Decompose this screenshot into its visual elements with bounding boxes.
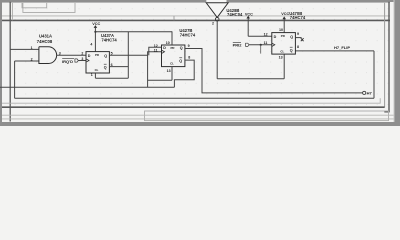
U437A Qbar overline: [104, 63, 107, 65]
wire U427B CLK drop: [148, 52, 162, 87]
window border right: [395, 0, 400, 126]
wire VCC rail to U427B PRE: [95, 31, 172, 33]
svg-text:1: 1: [91, 73, 93, 77]
svg-text:8: 8: [297, 45, 299, 49]
frame inner vertical x12.4: [11, 3, 13, 21]
svg-text:H7_FLIP: H7_FLIP: [334, 45, 350, 50]
title box small top-left: [22, 3, 47, 8]
wire U427B CLR down: [171, 67, 173, 81]
svg-text:VCC: VCC: [92, 22, 100, 26]
U437A clock mark: [86, 59, 89, 62]
svg-text:IRQ'D: IRQ'D: [62, 59, 73, 64]
flip-flop U470B box: [272, 33, 296, 55]
svg-text:74HC74: 74HC74: [101, 37, 117, 42]
svg-text:Q: Q: [290, 35, 293, 39]
wire IRQ'D stub to U437A CLK: [78, 60, 86, 62]
net label PRI2 flag: [246, 43, 249, 46]
wire U427B Q route to H7: [185, 49, 363, 93]
svg-text:74HC04: 74HC04: [227, 12, 243, 17]
svg-text:D: D: [274, 35, 277, 39]
wire inverter output horizontal: [217, 78, 284, 80]
off-page connector H7 circle: [363, 91, 366, 94]
wire U437A Q to U427B D: [109, 47, 161, 55]
svg-text:D: D: [88, 54, 91, 58]
svg-text:CL: CL: [95, 68, 99, 72]
svg-text:12: 12: [264, 33, 268, 37]
VCC symbol 3 (above U470B): [281, 12, 289, 32]
wire U470B CLR up: [283, 54, 285, 79]
sheet frame light second line: [2, 15, 390, 17]
svg-text:PRI2: PRI2: [233, 42, 243, 47]
wire AND pin1 input: [10, 48, 39, 50]
wire feedback left vertical: [14, 61, 16, 98]
window border left: [0, 0, 2, 126]
window border bottom: [0, 122, 400, 126]
svg-text:13: 13: [279, 55, 283, 59]
inverter U428B bubble: [215, 17, 219, 21]
svg-text:9: 9: [188, 44, 190, 48]
AND gate U431A: [39, 47, 57, 64]
svg-text:10: 10: [279, 28, 283, 32]
U470B clock mark: [272, 43, 275, 46]
svg-text:2: 2: [81, 51, 83, 55]
wire AND pin2 input (feedback): [15, 60, 39, 62]
title block box bottom: [145, 111, 389, 121]
VCC symbol 2 (to U470B D): [245, 12, 253, 36]
wire U437A CLR drop: [94, 73, 96, 78]
sheet frame dark bottom border: [2, 106, 385, 108]
svg-text:3: 3: [81, 57, 83, 61]
svg-text:2: 2: [212, 21, 214, 25]
svg-text:8: 8: [188, 55, 190, 59]
sheet frame light bottom line: [2, 102, 380, 104]
VCC symbol 1 (above U437A): [92, 22, 100, 52]
sheet frame mid right vertical: [384, 3, 386, 108]
wire H7_FLIP horizontal: [295, 50, 374, 52]
wire AND output to U437A D: [57, 54, 86, 56]
wire U427B PRE up: [171, 31, 173, 45]
lower light line 2: [2, 118, 394, 120]
wire H7_FLIP right vertical: [373, 51, 375, 98]
flip-flop U427B box: [162, 45, 185, 67]
sheet frame light bottom-right stub: [379, 98, 381, 103]
svg-text:74HC74: 74HC74: [290, 15, 306, 20]
window border right bevel: [393, 0, 394, 126]
sheet frame dark right border: [388, 2, 390, 112]
svg-text:9: 9: [297, 32, 299, 36]
sheet frame light top line: [2, 2, 390, 4]
U470B Qbar overline: [290, 46, 293, 48]
svg-text:74HC08: 74HC08: [37, 39, 53, 44]
wire U437A Qbar down: [109, 66, 128, 68]
U427B clock mark: [162, 50, 165, 53]
U427B Qbar overline: [179, 57, 182, 59]
wire PRI2 to U470B CLK: [249, 44, 272, 46]
svg-text:11: 11: [154, 48, 158, 52]
sheet frame dark left border: [9, 2, 11, 122]
flip-flop U437A box: [86, 52, 109, 73]
inverter U428B triangle: [206, 3, 228, 18]
net label PRI2 overline: [233, 41, 241, 43]
junction dot PRI2: [260, 44, 262, 46]
svg-text:H7: H7: [367, 91, 373, 96]
svg-text:Q: Q: [179, 59, 182, 63]
no-connect X on U470B Q: [301, 38, 304, 41]
svg-text:Q: Q: [180, 46, 183, 50]
wire feedback bottom horizontal: [15, 97, 374, 99]
svg-text:1: 1: [31, 46, 33, 50]
svg-text:Q: Q: [104, 54, 107, 58]
canvas background: [0, 0, 400, 126]
title box large top-left: [23, 3, 75, 13]
sheet frame dark top border: [2, 19, 390, 21]
wire VCC drop to CLR net: [127, 32, 129, 78]
svg-text:CL: CL: [280, 49, 284, 53]
junction dot VCC rail: [94, 31, 96, 33]
svg-text:2: 2: [31, 57, 33, 61]
net label IRQ'D overline: [62, 58, 74, 60]
svg-text:74HC74: 74HC74: [180, 32, 196, 37]
svg-text:4: 4: [90, 43, 92, 47]
svg-text:D: D: [163, 46, 166, 50]
window border top: [0, 0, 400, 2]
lower light line 1: [2, 114, 394, 116]
svg-text:VCC: VCC: [245, 12, 253, 16]
svg-text:13: 13: [167, 69, 171, 73]
svg-text:Q: Q: [290, 48, 293, 52]
svg-text:Q: Q: [104, 65, 107, 69]
wire CLK net long horizontal: [0, 86, 174, 88]
wire inverter output down: [216, 21, 218, 79]
svg-text:10: 10: [166, 41, 170, 45]
wire CLR net horizontal: [95, 77, 128, 79]
inverter white notch over border: [206, 0, 226, 3]
wire CLR-PRE link horizontal: [148, 79, 172, 81]
svg-text:CL: CL: [170, 61, 174, 65]
net label IRQ'D flag: [75, 59, 78, 62]
wire U427B Qbar feedback route: [174, 60, 194, 87]
frame tick x174: [173, 16, 175, 20]
wire stub below junction: [260, 45, 262, 54]
svg-text:12: 12: [154, 44, 158, 48]
svg-text:11: 11: [264, 41, 268, 45]
wire U470B Q stub: [295, 37, 301, 39]
sheet frame dark bottom-right short line: [384, 111, 389, 113]
wire VCC to U470B D: [248, 35, 272, 37]
